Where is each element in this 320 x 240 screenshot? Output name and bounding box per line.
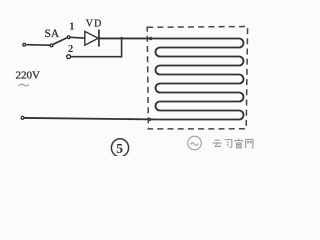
svg-text:VD: VD [86, 19, 103, 30]
svg-text:2: 2 [68, 44, 73, 55]
svg-text:1: 1 [69, 22, 74, 33]
svg-text:SA: SA [45, 28, 60, 40]
svg-text:220V: 220V [16, 70, 41, 82]
svg-text:5: 5 [116, 141, 123, 156]
